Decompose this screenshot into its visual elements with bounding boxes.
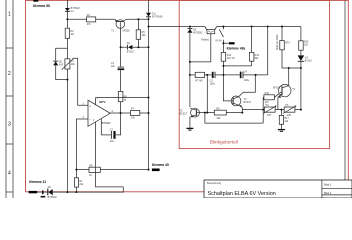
drawing frame left ruler line outer [5, 0, 7, 198]
wire T3 emitter elbow vertical [241, 107, 243, 112]
junction pin7 at supply [148, 97, 150, 99]
svg-text:Blatt 1: Blatt 1 [324, 183, 332, 187]
trimmer P2 body [264, 107, 275, 112]
svg-text:6V2: 6V2 [59, 64, 64, 67]
wire R7 to supply vertical [140, 112, 149, 114]
ruler tick y96 [6, 95, 13, 97]
junction R1 at ground rail [75, 191, 77, 193]
svg-text:10u: 10u [111, 65, 116, 68]
junction main line at ground rail [66, 191, 68, 193]
resistor R14 [299, 41, 304, 50]
wire main line below P1 to ground rail [66, 69, 68, 192]
wire C1 negative down to R6 [120, 70, 122, 91]
junction minus net at Klemme49 rail [75, 169, 77, 171]
wire P2 to P3 [275, 109, 284, 111]
wire R5 top lead [137, 19, 139, 30]
wire NTC bottom to collector branch [282, 49, 301, 68]
trimmer P3 wiper arrow [283, 105, 296, 113]
svg-text:NT3: NT3 [285, 41, 290, 44]
svg-text:2: 2 [8, 71, 11, 77]
wire T4 base feed from rail to cap wire corner [267, 27, 269, 75]
wire relay coil return loop [190, 34, 211, 62]
wire base node to D4 anode [121, 46, 128, 48]
wire relay coil lead left [205, 27, 208, 32]
wire C2 right lead to output node [116, 113, 121, 135]
junction R13 tap on rail2 [251, 26, 253, 28]
wire R13 top lead to rail [251, 27, 253, 53]
svg-text:Stab RE 400m: Stab RE 400m [276, 34, 279, 50]
wire row T3 to P2 [242, 109, 264, 111]
svg-text:BY700/06: BY700/06 [152, 15, 163, 18]
wire R10 right lead diagonal to T4 base [274, 93, 280, 97]
svg-text:BY550/2: BY550/2 [48, 196, 58, 198]
wire T1 base down [120, 26, 122, 67]
capacitor C1 [118, 67, 125, 70]
wire R5 bottom lead [137, 39, 139, 47]
wire opamp pin4 to ground hook crossing R8 [96, 122, 124, 187]
wire cap node down to T2 base wire [206, 75, 208, 113]
junction cap wire at collector line [189, 74, 191, 76]
capacitor C2 [111, 131, 115, 139]
trimmer P1 wiper arrow [62, 58, 74, 70]
red Blinkgeberteil section box [179, 0, 329, 148]
wire supply line top to D1b [148, 0, 150, 13]
wire R14 to D7 [300, 50, 302, 55]
svg-text:Klemme 49: Klemme 49 [152, 163, 169, 167]
wire relay coil lead right [214, 27, 217, 32]
svg-text:220: 220 [304, 43, 309, 46]
svg-text:1k2: 1k2 [284, 120, 289, 123]
transistor T1 [115, 19, 126, 28]
svg-text:R7 4k7: R7 4k7 [195, 79, 203, 82]
junction supply at collector rail [148, 18, 150, 20]
wire R12 bottom lead [222, 61, 224, 66]
red outer section box [26, 0, 349, 191]
wire D4 cathode to supply vertical [132, 46, 148, 48]
wire C4 right to corner [243, 74, 268, 76]
resistor R12 [221, 52, 226, 61]
diode D1b top of supply line [146, 13, 151, 17]
diode D7 [298, 55, 305, 61]
wire Blinkgeber top rail left [149, 26, 205, 28]
wire collector node to R7b [190, 74, 195, 76]
svg-text:4k7: 4k7 [70, 33, 75, 36]
junction row right end [300, 109, 302, 111]
drawing frame left ruler line inner [12, 0, 14, 198]
wire zener anode down and return to main line [56, 66, 68, 80]
wire R13 bottom lead [251, 61, 253, 66]
svg-text:1: 1 [8, 12, 11, 18]
wire switch S4 upper contact [222, 27, 224, 30]
wire D6 to T2 collector [189, 33, 191, 107]
wire T2 emitter to ground [189, 117, 191, 128]
wire R1 bottom lead [75, 187, 77, 192]
transistor T2 [190, 108, 199, 117]
svg-text:SF528: SF528 [122, 30, 130, 33]
wire ground rail [52, 187, 123, 192]
resistor R9 [214, 110, 226, 115]
junction U loop left [204, 112, 206, 114]
wire main supply vertical down to Klemme 49 rail [148, 17, 150, 170]
zener diode D3 [53, 61, 58, 65]
junction R7 at supply [148, 112, 150, 114]
terminal tick on ground rail [42, 190, 44, 194]
resistor R7 [131, 110, 140, 115]
svg-text:+: + [89, 104, 91, 108]
svg-text:Klemme 42a: Klemme 42a [227, 47, 246, 51]
svg-text:−: − [89, 117, 91, 121]
junction relay return at collector line [189, 61, 191, 63]
diode D2 [48, 189, 53, 196]
svg-text:BC327: BC327 [180, 112, 188, 115]
svg-text:Bezeichnung: Bezeichnung [207, 182, 221, 185]
wire C2 left lead [101, 134, 111, 136]
trimmer P2 wiper arrow [263, 105, 276, 113]
wire opamp minus input net [76, 119, 88, 170]
svg-text:470: 470 [267, 114, 272, 117]
svg-text:Klemme 58: Klemme 58 [33, 4, 50, 8]
svg-text:10u: 10u [110, 140, 115, 143]
junction NTC tap on rail2 [281, 26, 283, 28]
title block [204, 180, 352, 198]
ground symbol at T2 emitter [186, 128, 193, 130]
transistor T3 [231, 96, 242, 108]
ruler tick y144 [6, 143, 13, 145]
wire D1 cathode to node A [66, 11, 68, 28]
junction caps at R12 line [222, 74, 224, 76]
wire elbow down to T3 collector [239, 75, 256, 97]
svg-text:220: 220 [287, 114, 292, 117]
wire R7b to C3 [205, 74, 212, 76]
junction R12 bottom node [222, 65, 224, 67]
diode D1 [65, 8, 70, 11]
svg-text:Klemme 31: Klemme 31 [29, 180, 46, 184]
trimmer P1 body [65, 59, 70, 69]
wire stub to Klemme 42a [223, 42, 229, 44]
junction supply at Klemme49 [148, 169, 150, 171]
wire Klemme49 rail left [76, 169, 89, 171]
wire Blinkgeber top rail right [217, 26, 301, 28]
svg-text:BY110: BY110 [305, 59, 313, 62]
resistor R1 [74, 178, 78, 187]
wire Klemme58 feed down to D1 [66, 0, 68, 8]
wire D7 down to row end [300, 61, 302, 109]
junction R5 bottom at D4 wire [137, 46, 139, 48]
wire R14 top corner from rail [300, 27, 302, 41]
wire Klemme31 to D2 [37, 191, 48, 193]
svg-text:1k2 1%: 1k2 1% [227, 57, 236, 60]
junction row left end [262, 109, 264, 111]
svg-text:3: 3 [8, 122, 11, 128]
wire U loop below R9 [205, 113, 263, 124]
junction row at R17 [280, 109, 282, 111]
resistor R8 [89, 167, 100, 172]
wire T4 emitter down to row [277, 97, 279, 109]
junction base node at D4 [120, 46, 122, 48]
svg-text:100u: 100u [244, 79, 250, 82]
drawing frame right border [344, 0, 346, 198]
wire D6 top lead [189, 27, 191, 29]
switch S4 blade [219, 29, 223, 37]
svg-text:OPV: OPV [99, 100, 106, 104]
svg-text:4: 4 [8, 171, 11, 177]
wire W1 between R12 and R13 [223, 65, 251, 67]
wire node A rail to R4 [67, 18, 86, 20]
resistor R17 [279, 115, 283, 124]
svg-text:BY110: BY110 [127, 50, 135, 53]
wire switch to R12 [222, 40, 224, 53]
svg-text:IN S4: IN S4 [216, 39, 223, 42]
svg-text:8k2: 8k2 [255, 57, 260, 60]
terminal Klemme 31 bar [29, 191, 37, 193]
terminal tick lower mark [41, 196, 46, 198]
wire R9 to T3 emitter elbow [226, 112, 242, 114]
junction T4 collector at branch [288, 67, 290, 69]
resistor R10 [264, 95, 275, 100]
wire pin1 comp stub to C2 [100, 119, 102, 135]
junction T4base tap on rail2 [267, 26, 269, 28]
ruler tick y192 [6, 191, 13, 193]
wire T2 base to R9 [199, 112, 214, 114]
junction supply at blinkgeber rail [148, 26, 150, 28]
wire NTC top lead [281, 27, 283, 41]
svg-text:Blatt 2: Blatt 2 [324, 191, 332, 195]
junction D4 wire at supply [148, 46, 150, 48]
junction T2 base at cap drop [206, 112, 208, 114]
svg-text:BY550/2: BY550/2 [193, 32, 203, 35]
terminal Klemme 49 bar [152, 169, 160, 172]
wire R12 node down to T3 base [223, 66, 231, 101]
wire P3 to right line [295, 109, 301, 111]
svg-text:100u: 100u [210, 82, 216, 85]
wire R4 to T1 emitter [96, 18, 115, 20]
junction node A D1-R4 [66, 18, 68, 20]
diode D4 [128, 45, 133, 50]
resistor R13 [249, 52, 254, 61]
ruler tick y48 [6, 47, 13, 49]
wire R1 top lead [75, 170, 77, 178]
opamp pin7 crossing wire over R6 [96, 97, 149, 99]
trimmer P3 body [284, 107, 295, 112]
junction elbow branch on cap wire [255, 74, 257, 76]
ground symbol at R17 [278, 130, 285, 132]
wire P1 wiper to opamp plus input [74, 58, 88, 105]
svg-text:Blinkgeberteil: Blinkgeberteil [210, 139, 238, 144]
wire R10 left lead from row riser [262, 96, 265, 98]
wire T1 collector to node B [126, 18, 149, 20]
wire pin7 stub [95, 98, 97, 105]
diode D6 [187, 28, 192, 32]
wire R8 to Klemme 49 [100, 169, 148, 171]
svg-text:BC337: BC337 [244, 101, 252, 104]
transistor T4 [278, 84, 291, 97]
svg-text:B761D: B761D [102, 121, 111, 125]
junction zener return on main line [66, 79, 68, 81]
resistor R7b [195, 72, 204, 77]
opamp U1 OPV triangle [88, 100, 110, 126]
svg-text:SF326: SF326 [273, 87, 281, 90]
resistor R5 [136, 30, 140, 40]
resistor R6 [118, 91, 123, 101]
wire R2 top from node A [66, 38, 68, 59]
wire R6 bottom to output node [120, 102, 122, 113]
wire R17 to ground [280, 124, 282, 129]
terminal Klemme 58 bar [33, 0, 38, 2]
svg-text:2k2: 2k2 [79, 183, 84, 186]
junction Klemme42a stub [222, 42, 224, 44]
capacitor C4 [240, 72, 243, 79]
junction R5 tap on rail [137, 18, 139, 20]
resistor R2 [65, 28, 69, 38]
wire zener branch top [56, 48, 68, 60]
relay coil Relais1 body [207, 30, 215, 34]
resistor NTC R15 [280, 41, 285, 50]
junction output node [120, 112, 122, 114]
svg-text:Relais1: Relais1 [201, 39, 210, 42]
wire T4 collector up [288, 68, 290, 86]
resistor R4 [87, 17, 96, 22]
wire R17 top lead [280, 110, 282, 116]
junction collector branch at right line [300, 67, 302, 69]
junction cap mid node [206, 74, 208, 76]
svg-text:R10: R10 [265, 92, 270, 95]
wire C3 to C4 [223, 74, 239, 76]
wire C3 to R12 line [215, 74, 223, 76]
capacitor C3 [212, 72, 215, 78]
junction D6 tap on rail2 [189, 26, 191, 28]
terminal Klemme 42a bar [229, 42, 235, 44]
wire opamp output to output node [110, 112, 130, 114]
junction S4 tap on rail2 [222, 26, 224, 28]
svg-text:Schaltplan ELBA 6V Version: Schaltplan ELBA 6V Version [208, 191, 276, 197]
wire row riser to R10 [262, 97, 264, 123]
junction T3 emitter elbow [241, 112, 243, 114]
relay coil squiggle [208, 31, 214, 33]
